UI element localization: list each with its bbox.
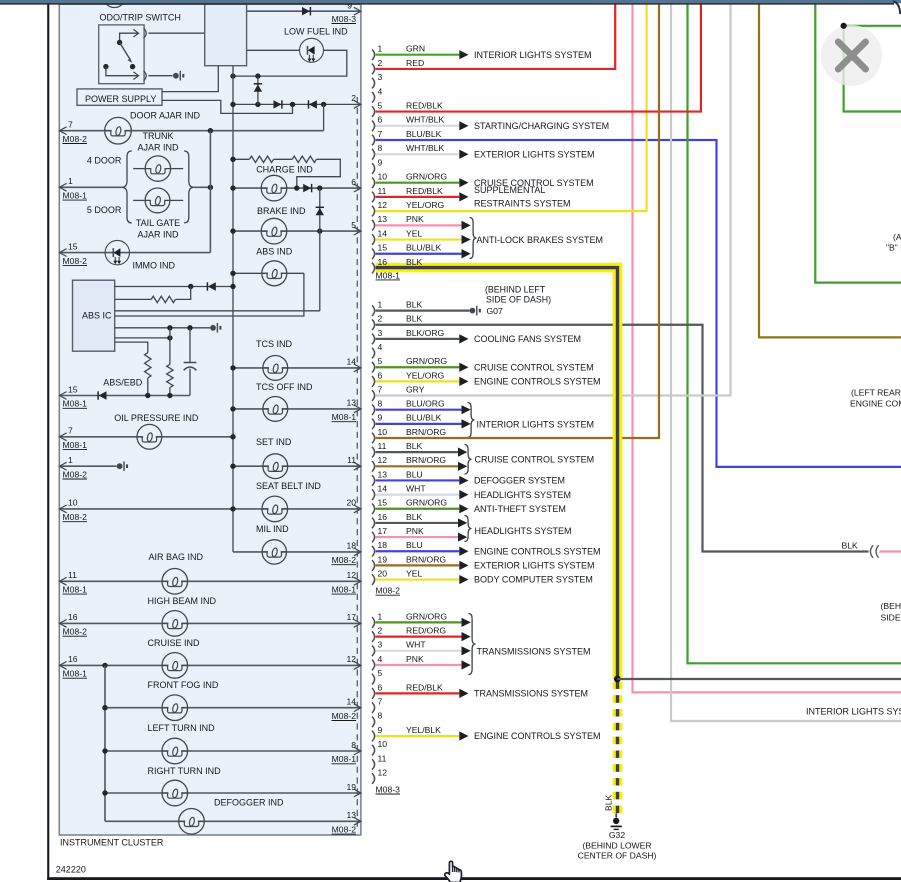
svg-text:M08-1: M08-1 <box>63 191 88 201</box>
svg-text:1: 1 <box>68 176 73 186</box>
connector M08-2 pin 19 <box>372 560 375 571</box>
wire pin2 row <box>233 103 361 105</box>
svg-text:8: 8 <box>351 740 356 750</box>
connector M08-2 pin 15 <box>372 503 375 514</box>
connector M08-2 pin 10 <box>372 433 375 444</box>
connector M08-1 pin 3 <box>372 78 375 89</box>
ground G32 <box>615 814 617 818</box>
window top-right rounded corner <box>893 1 900 14</box>
svg-text:ENGINE COMPARTMENT: ENGINE COMPARTMENT <box>850 398 901 408</box>
connector M08-3 pin 1 <box>372 617 375 628</box>
svg-text:M08-1: M08-1 <box>332 412 357 422</box>
wire row G <box>115 342 148 353</box>
svg-text:9: 9 <box>378 157 383 167</box>
svg-text:ENGINE CONTROLS SYSTEM: ENGINE CONTROLS SYSTEM <box>474 546 601 556</box>
tail gate ajar lamp <box>133 199 145 201</box>
svg-text:M08-1: M08-1 <box>376 270 401 280</box>
svg-text:YEL/ORG: YEL/ORG <box>406 370 445 380</box>
svg-text:5 DOOR: 5 DOOR <box>87 205 122 215</box>
wire brake row <box>233 230 361 232</box>
wire pin1 GRN <box>376 54 460 56</box>
wire g2 pin18 BLU <box>376 550 460 552</box>
svg-text:RED: RED <box>406 58 424 68</box>
connector M08-3 pin 2 <box>372 631 375 642</box>
svg-text:SIDE OF DASH): SIDE OF DASH) <box>486 295 551 305</box>
right exit pin 12 M08-1 <box>354 577 361 585</box>
connector M08-3 pin 5 <box>372 674 375 685</box>
svg-text:STARTING/CHARGING SYSTEM: STARTING/CHARGING SYSTEM <box>474 121 609 131</box>
svg-text:DEFOGGER IND: DEFOGGER IND <box>214 797 284 807</box>
svg-text:11: 11 <box>68 570 77 580</box>
wire g3 pin4 <box>376 664 462 666</box>
svg-text:RED/BLK: RED/BLK <box>406 682 443 692</box>
low fuel indicator LED <box>300 38 324 62</box>
left exit pin 16 M08-1 <box>59 662 66 670</box>
svg-text:RED/ORG: RED/ORG <box>406 626 446 636</box>
svg-text:M08-1: M08-1 <box>332 754 357 764</box>
connector M08-1 pin 7 <box>372 135 375 146</box>
wire g2 pin17 PNK <box>376 536 458 538</box>
wire BLK dashed segment to ground G32 <box>613 682 623 814</box>
svg-text:BLU/BLK: BLU/BLK <box>406 413 442 423</box>
svg-text:HIGH BEAM IND: HIGH BEAM IND <box>148 596 217 606</box>
main vertical bus <box>232 66 234 552</box>
svg-text:MIL IND: MIL IND <box>256 524 289 534</box>
svg-text:GRN/ORG: GRN/ORG <box>406 172 447 182</box>
svg-text:1: 1 <box>378 44 383 54</box>
wire power supply to module <box>162 66 218 92</box>
abs lamp return wire <box>115 273 304 316</box>
svg-text:4: 4 <box>378 654 383 664</box>
wire g2 pin10 BRN/ORG to top <box>376 4 659 438</box>
connector M08-2 pin 5 <box>372 362 375 373</box>
chassis termination <box>117 463 123 469</box>
ABS IC box U2 <box>73 280 115 351</box>
svg-text:BLU/BLK: BLU/BLK <box>406 243 442 253</box>
right exit pin 20 <box>354 505 361 513</box>
left exit pin 15 M08-1 <box>59 392 66 400</box>
wire left turn row <box>105 750 361 752</box>
resistor row <box>233 158 249 160</box>
svg-text:BODY COMPUTER SYSTEM: BODY COMPUTER SYSTEM <box>474 575 593 585</box>
wire pin14 YEL <box>376 238 462 240</box>
wire PNK continuation <box>880 550 901 552</box>
svg-text:5: 5 <box>351 220 356 230</box>
connector M08-3 pin 12 <box>372 773 375 784</box>
svg-text:BRAKE IND: BRAKE IND <box>257 206 306 216</box>
wire tcs off row <box>233 408 361 410</box>
wire g2 pin12 BRN/ORG <box>376 465 458 467</box>
svg-text:M08-2: M08-2 <box>332 711 357 721</box>
wire brace to node <box>194 186 211 188</box>
svg-text:(AT: (AT <box>893 232 901 242</box>
connector M08-2 pin 7 <box>372 390 375 401</box>
connector M08-2 pin 11 <box>372 447 375 458</box>
high beam lamp <box>169 622 182 625</box>
svg-text:16: 16 <box>378 257 388 267</box>
connector M08-2 pin 3 <box>372 334 375 345</box>
svg-text:242220: 242220 <box>56 865 86 875</box>
brace transmissions <box>469 614 476 675</box>
svg-text:CHARGE IND: CHARGE IND <box>256 165 313 175</box>
svg-text:2: 2 <box>378 58 383 68</box>
front fog lamp <box>169 706 182 709</box>
wire g2 pin8 BLU/ORG <box>376 409 462 411</box>
svg-text:ODO/TRIP SWITCH: ODO/TRIP SWITCH <box>100 12 181 22</box>
wire row B with resistor R3 <box>115 298 152 300</box>
svg-text:15: 15 <box>378 498 388 508</box>
svg-text:TCS OFF IND: TCS OFF IND <box>256 382 313 392</box>
svg-text:BLK: BLK <box>406 314 423 324</box>
brace headlights <box>465 516 472 542</box>
svg-text:7: 7 <box>378 129 383 139</box>
svg-text:RESTRAINTS SYSTEM: RESTRAINTS SYSTEM <box>474 199 571 209</box>
wire highlighted vertical (overlay) <box>608 268 618 679</box>
svg-text:12: 12 <box>346 654 356 664</box>
wire g2 pin14 WHT <box>376 494 460 496</box>
svg-text:M08-1: M08-1 <box>63 669 88 679</box>
connector M08-1 pin 13 <box>372 220 375 231</box>
svg-text:7: 7 <box>378 384 383 394</box>
svg-text:TCS IND: TCS IND <box>256 339 293 349</box>
svg-text:INTERIOR LIGHTS SYSTEM: INTERIOR LIGHTS SYSTEM <box>477 419 595 429</box>
capacitor C1 <box>189 328 191 363</box>
wire charge row <box>233 187 361 189</box>
svg-text:LEFT TURN IND: LEFT TURN IND <box>148 723 216 733</box>
svg-text:BRN/ORG: BRN/ORG <box>406 554 446 564</box>
vertical tie bottom-left <box>104 665 106 821</box>
svg-text:BLU: BLU <box>406 469 423 479</box>
svg-text:1: 1 <box>378 611 383 621</box>
wire pin8 WHT/BLK <box>376 153 460 155</box>
wire pin7 BLU/BLK long <box>376 140 901 467</box>
svg-text:11: 11 <box>378 186 387 196</box>
svg-text:15: 15 <box>68 241 78 251</box>
svg-text:CRUISE CONTROL SYSTEM: CRUISE CONTROL SYSTEM <box>474 362 594 372</box>
svg-text:5: 5 <box>378 668 383 678</box>
switch S1 box <box>99 25 144 84</box>
wire GRN vertical 1 <box>688 4 901 663</box>
inline connector (( <box>870 545 873 557</box>
close X icon <box>838 42 865 69</box>
set indicator lamp <box>269 465 282 468</box>
wire defogger row <box>105 820 361 822</box>
connector M08-2 pin 8 <box>372 404 375 415</box>
svg-text:GRN/ORG: GRN/ORG <box>406 498 447 508</box>
svg-text:POWER SUPPLY: POWER SUPPLY <box>85 94 156 104</box>
door ajar lamp <box>112 129 125 132</box>
svg-text:15: 15 <box>68 384 78 394</box>
wire g2 pin15 GRN/ORG <box>376 508 460 510</box>
left exit pin 7 M08-1 <box>59 433 66 441</box>
connector M08-3 pin 3 <box>372 646 375 657</box>
connector M08-2 pin 6 <box>372 376 375 387</box>
svg-text:INTERIOR LIGHTS SYSTEM: INTERIOR LIGHTS SYSTEM <box>474 50 592 60</box>
svg-text:BLK: BLK <box>406 257 423 267</box>
svg-text:BLK: BLK <box>842 541 859 551</box>
svg-text:ENGINE CONTROLS SYSTEM: ENGINE CONTROLS SYSTEM <box>474 731 601 741</box>
wire DK-YEL vertical <box>759 4 901 337</box>
svg-text:EXTERIOR LIGHTS SYSTEM: EXTERIOR LIGHTS SYSTEM <box>474 561 595 571</box>
svg-text:BRN/ORG: BRN/ORG <box>406 455 446 465</box>
wire g2 pin3 BLK/ORG <box>376 338 460 340</box>
svg-text:6: 6 <box>351 177 356 187</box>
svg-text:6: 6 <box>378 682 383 692</box>
svg-text:TRANSMISSIONS SYSTEM: TRANSMISSIONS SYSTEM <box>474 689 588 699</box>
connector M08-2 pin 4 <box>372 348 375 359</box>
svg-text:10: 10 <box>378 739 388 749</box>
svg-text:GRN/ORG: GRN/ORG <box>406 356 447 366</box>
connector M08-1 pin 1 <box>372 49 375 60</box>
left exit pin 10 M08-2 <box>59 505 66 513</box>
connector M08-1 pin 16 <box>372 263 375 274</box>
svg-text:17: 17 <box>346 612 356 622</box>
connector M08-3 pin 8 <box>372 717 375 728</box>
svg-text:9: 9 <box>378 413 383 423</box>
wire pin13 PNK <box>376 224 462 226</box>
svg-text:4 DOOR: 4 DOOR <box>87 156 122 166</box>
right exit pin 11 <box>354 462 361 470</box>
connector M08-1 pin 5 <box>372 106 375 117</box>
right exit pin 8 M08-1 <box>354 747 361 755</box>
wire oil pressure row <box>59 436 233 438</box>
wire abs row <box>233 272 304 274</box>
resistor R5 (vertical) <box>169 328 171 365</box>
svg-text:G07: G07 <box>487 306 503 316</box>
left exit pin 15 M08-2 <box>59 249 66 257</box>
svg-text:AJAR IND: AJAR IND <box>137 229 179 239</box>
svg-text:20: 20 <box>346 498 356 508</box>
diode D2 <box>274 100 282 108</box>
svg-text:CENTER OF DASH): CENTER OF DASH) <box>578 851 657 861</box>
svg-text:11: 11 <box>378 753 387 763</box>
wire g1 pin16 BLK highlighted (yellow) <box>376 268 618 679</box>
wire brake branch to ABS IC <box>115 310 320 312</box>
right exit pin 6 <box>354 184 361 192</box>
svg-text:19: 19 <box>346 782 356 792</box>
svg-text:COOLING FANS SYSTEM: COOLING FANS SYSTEM <box>474 334 581 344</box>
resistor R2 <box>292 156 316 162</box>
svg-text:11: 11 <box>378 441 387 451</box>
wire pin15 BLU/BLK <box>376 253 462 255</box>
wire g3 pin3 <box>376 650 462 652</box>
wire g2 pin20 YEL <box>376 578 460 580</box>
svg-text:13: 13 <box>346 398 356 408</box>
connector M08-1 pin 14 <box>372 234 375 245</box>
svg-text:PNK: PNK <box>406 526 424 536</box>
wire GRN close-button loop <box>844 25 901 27</box>
svg-text:SUPPLEMENTAL: SUPPLEMENTAL <box>474 185 545 195</box>
wire g2 pin13 BLU <box>376 479 460 481</box>
svg-text:1: 1 <box>378 300 383 310</box>
cruise lamp <box>169 664 182 667</box>
wire g2 pin6 YEL/ORG <box>376 380 460 382</box>
connector M08-1 pin 11 <box>372 192 375 203</box>
svg-text:OIL PRESSURE IND: OIL PRESSURE IND <box>114 413 199 423</box>
svg-text:14: 14 <box>346 357 356 367</box>
svg-text:M08-1: M08-1 <box>63 399 88 409</box>
connector M08-2 pin 16 <box>372 518 375 529</box>
module box U1 (top center) <box>205 4 247 65</box>
svg-text:RED/BLK: RED/BLK <box>406 100 443 110</box>
connector M08-2 pin 2 <box>372 319 375 330</box>
svg-text:SEAT BELT IND: SEAT BELT IND <box>256 481 321 491</box>
svg-text:SET IND: SET IND <box>256 437 292 447</box>
svg-text:M08-1: M08-1 <box>332 585 357 595</box>
instrument cluster box <box>59 4 361 835</box>
svg-text:9: 9 <box>378 725 383 735</box>
wire low fuel lamp loop down to bus <box>233 50 347 76</box>
wire set row <box>233 465 361 467</box>
svg-text:8: 8 <box>378 711 383 721</box>
brace cruise control <box>465 445 472 475</box>
wire module to low fuel lamp <box>247 49 300 51</box>
svg-text:13: 13 <box>346 810 356 820</box>
wire row F <box>115 337 170 339</box>
wire immo row <box>59 252 210 254</box>
wire g2 pin2 BLK long <box>376 325 869 552</box>
connector M08-3 pin 4 <box>372 660 375 671</box>
switch S1 <box>120 33 138 42</box>
svg-text:M08-2: M08-2 <box>332 555 357 565</box>
svg-text:11: 11 <box>347 455 356 465</box>
wire GRN vertical 2 <box>815 4 901 282</box>
wire pin12 YEL/ORG to top <box>376 4 647 211</box>
wire row A with diode <box>115 286 233 288</box>
svg-text:BLK: BLK <box>406 441 423 451</box>
svg-text:RIGHT TURN IND: RIGHT TURN IND <box>148 766 222 776</box>
svg-text:YEL: YEL <box>406 568 422 578</box>
wire tcs row <box>233 367 361 369</box>
tcs indicator lamp <box>269 366 282 369</box>
svg-text:BLU/BLK: BLU/BLK <box>406 129 442 139</box>
svg-text:YEL/BLK: YEL/BLK <box>406 725 441 735</box>
abs indicator lamp <box>268 272 281 275</box>
connector M08-2 pin 18 <box>372 546 375 557</box>
svg-text:TAIL GATE: TAIL GATE <box>136 218 180 228</box>
svg-text:4: 4 <box>378 86 383 96</box>
wire pin5 RED/BLK to top <box>376 4 701 111</box>
svg-text:M08-2: M08-2 <box>63 512 88 522</box>
tcs off indicator lamp <box>269 407 282 410</box>
connector M08-2 pin 9 <box>372 419 375 430</box>
connector M08-3 pin 9 <box>372 731 375 742</box>
wire g3 pin6 RED/BLK <box>376 692 460 694</box>
connector M08-3 pin 7 <box>372 702 375 713</box>
right brace <box>184 151 194 223</box>
right exit pin 12 <box>354 662 361 670</box>
svg-text:DOOR AJAR IND: DOOR AJAR IND <box>130 111 201 121</box>
svg-text:ABS/EBD: ABS/EBD <box>103 377 143 387</box>
wire seat belt row <box>59 508 360 510</box>
connector M08-1 pin 10 <box>372 177 375 188</box>
wire pin10 GRN/ORG <box>376 182 460 184</box>
svg-text:7: 7 <box>68 120 73 130</box>
diode D7 <box>208 282 216 290</box>
svg-text:18: 18 <box>346 541 356 551</box>
svg-text:SIDE OF: SIDE OF <box>881 612 901 622</box>
svg-text:LOW FUEL IND: LOW FUEL IND <box>284 27 348 37</box>
ground G07 <box>470 308 476 314</box>
wire module to pin 9 exit <box>247 10 361 12</box>
wire from switch upper contact to module <box>148 32 204 34</box>
svg-text:(BEHIND LEFT: (BEHIND LEFT <box>485 285 546 295</box>
svg-text:6: 6 <box>378 115 383 125</box>
svg-text:BLK: BLK <box>406 300 423 310</box>
svg-text:M08-2: M08-2 <box>63 469 88 479</box>
junction node <box>614 676 621 683</box>
connector M08-2 pin 12 <box>372 461 375 472</box>
connector M08-2 pin 17 <box>372 532 375 543</box>
diode D8 <box>99 391 107 399</box>
svg-text:2: 2 <box>351 93 356 103</box>
trunk ajar lamp <box>133 168 145 170</box>
svg-text:HEADLIGHTS SYSTEM: HEADLIGHTS SYSTEM <box>475 526 572 536</box>
svg-text:3: 3 <box>378 640 383 650</box>
wire pin2 RED to top <box>376 4 616 69</box>
wire g2 pin5 GRN/ORG <box>376 366 460 368</box>
svg-text:(BEHIND: (BEHIND <box>881 601 901 611</box>
svg-text:GRY: GRY <box>406 384 425 394</box>
connector M08-3 pin 6 <box>372 688 375 699</box>
left exit pin 1 M08-1 <box>59 183 66 191</box>
window left border <box>47 4 49 880</box>
lamp (cut off at top) <box>103 0 125 8</box>
svg-text:1: 1 <box>68 455 73 465</box>
left exit pin 7 M08-2 <box>59 127 66 135</box>
wire PNK vertical right <box>633 4 901 692</box>
svg-text:M08-2: M08-2 <box>332 825 357 835</box>
svg-text:ABS IND: ABS IND <box>256 247 293 257</box>
vertical diode D4 branch <box>257 76 259 104</box>
svg-text:INTERIOR LIGHTS SYSTEM: INTERIOR LIGHTS SYSTEM <box>806 707 901 717</box>
connector boundary dashed line <box>356 97 358 830</box>
immobilizer indicator LED <box>105 240 129 264</box>
wire g2 pin1 BLK to G07 <box>376 310 470 312</box>
svg-text:12: 12 <box>378 455 388 465</box>
svg-text:14: 14 <box>378 228 388 238</box>
mouse cursor hand <box>445 861 462 882</box>
air bag lamp <box>169 580 182 583</box>
right exit pin 13 M08-1 <box>354 405 361 413</box>
svg-text:BLK: BLK <box>603 794 613 811</box>
wire high beam row <box>59 622 360 624</box>
svg-text:3: 3 <box>378 72 383 82</box>
svg-text:4: 4 <box>378 342 383 352</box>
svg-text:7: 7 <box>378 697 383 707</box>
brace anti-lock <box>470 218 477 259</box>
resistor R4 (vertical) <box>145 353 151 378</box>
connector M08-1 pin 2 <box>372 64 375 75</box>
svg-text:M08-2: M08-2 <box>63 627 88 637</box>
right exit pin 2 <box>354 101 361 109</box>
svg-text:13: 13 <box>378 469 388 479</box>
svg-text:5: 5 <box>378 100 383 110</box>
right exit pin 17 <box>354 620 361 628</box>
connector M08-1 pin 15 <box>372 248 375 259</box>
left exit pin 1 M08-2 <box>59 462 66 470</box>
svg-text:(LEFT REAR OF: (LEFT REAR OF <box>851 388 901 398</box>
svg-text:10: 10 <box>68 498 78 508</box>
brace interior lights <box>468 403 475 438</box>
svg-text:TRANSMISSIONS SYSTEM: TRANSMISSIONS SYSTEM <box>477 646 591 656</box>
wire stub with chassis (left) <box>59 465 116 467</box>
oil pressure lamp <box>143 435 156 438</box>
svg-text:2: 2 <box>378 314 383 324</box>
connector M08-1 pin 9 <box>372 163 375 174</box>
svg-text:8: 8 <box>378 143 383 153</box>
svg-text:ANTI-THEFT SYSTEM: ANTI-THEFT SYSTEM <box>474 504 566 514</box>
